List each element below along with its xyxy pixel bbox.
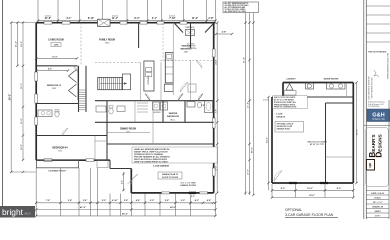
opening dashed line living room (80, 23, 82, 66)
sheet left border line (2, 0, 4, 206)
bay window box with X on top wall (98, 19, 111, 26)
svg-text:21'-8": 21'-8" (215, 59, 217, 64)
garage slab note box (158, 172, 182, 179)
bedroom door swing (62, 128, 68, 136)
svg-text:4'-2": 4'-2" (195, 199, 199, 202)
svg-text:17'-0": 17'-0" (215, 165, 217, 170)
main plan right exterior wall (213, 23, 215, 193)
svg-text:65'-0": 65'-0" (122, 213, 128, 215)
svg-text:THE GETTYSBURG: THE GETTYSBURG (368, 51, 387, 53)
svg-text:bright: bright (2, 207, 24, 217)
garage plan left wall (271, 97, 273, 183)
strong interior wall y122 (95, 121, 214, 123)
master bath vanity (187, 102, 195, 108)
svg-text:HOMES INC: HOMES INC (372, 118, 386, 121)
water heater closet wall (346, 83, 348, 98)
svg-text:LAUNDRY: LAUNDRY (153, 111, 162, 114)
kitchen wall cabinets (165, 53, 173, 83)
svg-text:8'-6": 8'-6" (48, 69, 52, 71)
svg-text:OPENINGS PRIOR TO FRAMING.: OPENINGS PRIOR TO FRAMING. (134, 153, 164, 156)
dining left wall (106, 101, 108, 161)
garage plan laundry top wall (283, 82, 353, 84)
bath vanity counter (38, 110, 52, 117)
svg-text:MASTER: MASTER (169, 112, 178, 115)
door swing at mid wall 2 (178, 94, 183, 101)
breakfast dashed boundary (95, 61, 140, 63)
garage plan door swing (274, 171, 282, 182)
windows on bottom wall (44, 159, 52, 162)
garage plan laundry left wall (282, 83, 284, 98)
svg-text:VERIFY W/ OWNER PRIOR TO START: VERIFY W/ OWNER PRIOR TO START (134, 161, 169, 164)
svg-text:17/19: 17/19 (105, 43, 110, 45)
svg-text:4'-6": 4'-6" (136, 199, 140, 202)
master tub (205, 101, 213, 113)
dryer icon (306, 83, 314, 89)
svg-text:32'-0": 32'-0" (309, 195, 315, 197)
svg-text:2'-8": 2'-8" (222, 32, 227, 34)
door swing at mid wall 1 (145, 94, 150, 101)
garage plan dim chain 2 (272, 197, 353, 199)
garage plan laundry bottom line (272, 96, 353, 98)
small scale figure (374, 70, 379, 77)
svg-text:GARAGE DOORS: GARAGE DOORS (180, 184, 196, 187)
svg-text:14/80: 14/80 (53, 44, 59, 47)
svg-text:3'-1": 3'-1" (66, 17, 71, 20)
svg-text:11'-2": 11'-2" (192, 17, 198, 20)
svg-text:11'-5": 11'-5" (21, 118, 23, 124)
pantry door swing (180, 82, 188, 92)
svg-text:GARAGE PLAN: GARAGE PLAN (277, 128, 291, 131)
garage note text block (132, 147, 218, 163)
storage bay top line (326, 102, 354, 104)
laundry sink triangle (286, 84, 293, 91)
door swing at mid wall 3 (198, 94, 203, 101)
kitchen island (144, 61, 154, 91)
fireplace corner diagonal left (175, 24, 183, 33)
svg-text:5'-0": 5'-0" (181, 200, 185, 202)
svg-text:12/13: 12/13 (126, 132, 131, 134)
closet right wall line (77, 66, 79, 100)
svg-text:AT 16" O.C. TYP.: AT 16" O.C. TYP. (310, 143, 325, 146)
garage door opening 2 (200, 192, 208, 194)
svg-text:4'-4": 4'-4" (207, 199, 211, 202)
svg-text:FAMILY ROOM: FAMILY ROOM (99, 39, 115, 42)
storage bay divider vertical (325, 103, 327, 183)
garage plan note block (273, 96, 308, 109)
stair arrow (100, 83, 127, 85)
svg-text:4'-1": 4'-1" (152, 17, 157, 20)
svg-text:3'-8": 3'-8" (124, 200, 128, 202)
svg-text:5'-8": 5'-8" (165, 200, 169, 202)
svg-text:2-9x5-2: 2-9x5-2 (169, 15, 175, 17)
hall bath fixtures top-mid (96, 106, 106, 112)
svg-text:11/12: 11/12 (58, 151, 62, 153)
svg-text:2-CAR GARAGE: 2-CAR GARAGE (153, 165, 170, 168)
garage small dim (191, 202, 214, 204)
svg-text:11/12: 11/12 (52, 88, 56, 90)
svg-text:COVERED PORCH: COVERED PORCH (48, 171, 66, 173)
mid horizontal interior wall (95, 100, 214, 102)
bath hall wall vertical 2 (184, 101, 186, 123)
svg-text:W.I.C.: W.I.C. (171, 119, 176, 121)
garage plan door marks (289, 182, 297, 184)
pantry door swing upper (196, 60, 202, 68)
bifold closet zigzag doors (69, 70, 77, 83)
svg-text:DINING ROOM: DINING ROOM (120, 129, 136, 131)
svg-text:PRIOR TO CONSTRUCTION: PRIOR TO CONSTRUCTION (274, 107, 297, 109)
garage plan left dim line (268, 97, 270, 190)
garage plan dim chain 1 (272, 189, 353, 191)
hall bath wall vertical (134, 101, 136, 123)
svg-text:13/17: 13/17 (184, 52, 189, 54)
svg-text:3-CAR GARAGE FLOOR PLAN: 3-CAR GARAGE FLOOR PLAN (285, 213, 334, 217)
svg-text:5'-0": 5'-0" (102, 200, 106, 202)
small dim right of plan (216, 33, 232, 35)
svg-text:2-9x5-2: 2-9x5-2 (112, 15, 118, 17)
bearrs ornate seal (367, 160, 375, 171)
svg-text:BEDROOM #4: BEDROOM #4 (52, 147, 68, 150)
dashed vertical kitchen boundary (162, 23, 164, 61)
svg-text:5'-0": 5'-0" (150, 200, 154, 202)
covered porch outline (36, 160, 78, 168)
G&H blue logo box (367, 109, 390, 122)
svg-text:2'-4": 2'-4" (83, 199, 87, 202)
fireplace corner diagonal right (205, 24, 214, 33)
svg-text:717-555-0100: 717-555-0100 (368, 106, 379, 108)
cathedral ceiling dashed line (160, 60, 214, 62)
svg-text:8'-0": 8'-0" (337, 188, 341, 190)
svg-text:GETTYSBURG PA 17325: GETTYSBURG PA 17325 (371, 78, 374, 99)
svg-text:2 OF 7: 2 OF 7 (375, 216, 381, 218)
door swing living wall (73, 66, 78, 73)
garage entry door swing (128, 174, 139, 184)
garage left wall (130, 169, 132, 193)
svg-text:7'-0": 7'-0" (215, 109, 217, 113)
dining bottom wall (107, 131, 150, 133)
svg-text:LIVING ROOM: LIVING ROOM (48, 40, 64, 42)
sitting room wall (190, 23, 192, 48)
interior dim line bedroom2 (36, 57, 77, 59)
svg-text:3-CAR: 3-CAR (276, 113, 283, 116)
main plan bottom wall (left) (36, 159, 110, 161)
hall vertical wall 1 (78, 66, 80, 112)
svg-text:2-9x5-2: 2-9x5-2 (45, 15, 51, 17)
garage plan bottom wall (272, 182, 353, 184)
svg-text:LABEL ALL WINDOWS AND DOORS W/: LABEL ALL WINDOWS AND DOORS W/ (134, 148, 170, 151)
svg-text:66'-0": 66'-0" (8, 94, 11, 101)
svg-text:MANUF. SPECS. VERIFY ALL ROUGH: MANUF. SPECS. VERIFY ALL ROUGH (134, 150, 168, 153)
interior dim line bedroom2 b (36, 70, 68, 72)
hall vertical wall 2 (85, 66, 87, 112)
garage door opening 1 (162, 192, 170, 194)
mud room left wall (152, 101, 154, 144)
svg-text:4'-10": 4'-10" (112, 199, 118, 202)
washer dryer boxes (153, 102, 160, 110)
main plan left exterior wall (35, 23, 37, 161)
svg-text:OPTIONAL LAYOUT: OPTIONAL LAYOUT (277, 122, 295, 125)
bright MLS watermark box (0, 206, 35, 218)
garage top wall (107, 143, 214, 145)
main plan top exterior wall (36, 22, 215, 24)
basement stair hatch (79, 89, 87, 91)
linen closet shelves (137, 102, 148, 104)
fireplace box (186, 30, 195, 36)
right inner dim line (216, 23, 218, 193)
kitchen right wall line (172, 23, 174, 95)
svg-text:2'-8": 2'-8" (201, 105, 205, 107)
svg-text:WWW.BEARRSDESIGNS.COM: WWW.BEARRSDESIGNS.COM (386, 53, 389, 79)
garage plan right wall (352, 83, 354, 184)
windows on right wall (212, 49, 215, 57)
bearrs designs rounded box (366, 128, 389, 187)
svg-text:WATER HEATER: WATER HEATER (324, 78, 339, 81)
svg-text:21'-8": 21'-8" (45, 17, 52, 20)
svg-text:DRAWN: JB: DRAWN: JB (372, 206, 383, 209)
svg-text:9'-0": 9'-0" (191, 196, 195, 198)
bottom extension lines (35, 168, 37, 216)
svg-text:GARAGE: GARAGE (276, 115, 286, 118)
svg-text:41'-0": 41'-0" (80, 206, 86, 209)
svg-text:7'-6": 7'-6" (46, 200, 50, 202)
svg-text:KITCHEN: KITCHEN (148, 75, 150, 84)
svg-text:BEDROOM #2: BEDROOM #2 (47, 85, 62, 87)
svg-text:DATE: 10-4-02: DATE: 10-4-02 (371, 192, 384, 195)
svg-text:BATHROOM: BATHROOM (167, 115, 179, 118)
svg-text:PROVIDE HEADERS AT ALL OPENING: PROVIDE HEADERS AT ALL OPENINGS (134, 155, 170, 158)
optional layout box (275, 122, 304, 133)
front door landing (97, 160, 108, 168)
svg-text:2'-8": 2'-8" (208, 17, 213, 20)
left dimension chain lines (10, 23, 12, 173)
toilet (55, 111, 59, 117)
interior wall x138 upper (138, 23, 140, 48)
line under logo (364, 125, 390, 127)
svg-text:10'-0": 10'-0" (21, 144, 23, 150)
svg-text:21'-8": 21'-8" (244, 57, 246, 63)
garage side dim line (123, 172, 125, 191)
svg-text:24'-0": 24'-0" (266, 137, 269, 143)
garage bottom wall (131, 192, 213, 194)
svg-text:16'-8": 16'-8" (52, 56, 57, 58)
top-right note box (223, 2, 259, 13)
svg-text:8'-0": 8'-0" (281, 188, 285, 190)
svg-text:12'-1": 12'-1" (21, 83, 23, 89)
front wall step (109, 160, 111, 168)
windows on top wall (44, 21, 52, 24)
living/family interior wall (36, 65, 77, 67)
svg-text:14'-2": 14'-2" (20, 41, 23, 47)
kitchen vertical light line (140, 62, 142, 100)
bath hall wall vertical 1 (162, 101, 164, 123)
svg-text:6'-11": 6'-11" (88, 17, 94, 20)
bottom table (388, 100, 390, 219)
garage plan bottom ext lines (271, 184, 273, 198)
svg-text:4'-0": 4'-0" (121, 180, 124, 184)
svg-text:11'-1": 11'-1" (112, 17, 118, 20)
svg-text:1/4" = 1'-0": 1/4" = 1'-0" (373, 201, 383, 204)
linen closet (188, 84, 196, 92)
svg-text:3'-4": 3'-4" (68, 199, 72, 202)
svg-text:21'-4": 21'-4" (15, 41, 18, 47)
top dimension line (38, 20, 216, 22)
svg-text:1234 CHESTNUT RIDGE RD: 1234 CHESTNUT RIDGE RD (368, 76, 371, 100)
master toilet (197, 102, 201, 108)
svg-text:SLOPE TO DOORS: SLOPE TO DOORS (162, 177, 179, 179)
svg-text:GARAGE SLAB TO: GARAGE SLAB TO (162, 173, 179, 176)
svg-text:SHEET: SHEET (374, 211, 381, 213)
bottom dim chain 2 (36, 209, 215, 211)
title block left double border (363, 0, 365, 219)
svg-text:OPTIONAL: OPTIONAL (285, 208, 302, 212)
bottom dim chain 3 overall (36, 215, 215, 217)
pantry divider wall (190, 60, 192, 101)
svg-text:8'-4": 8'-4" (134, 17, 139, 20)
garage plan right dim line (356, 83, 358, 184)
title block revision rows (366, 5, 390, 7)
svg-text:7'-10": 7'-10" (169, 17, 176, 20)
bottom dim chain 1 (36, 202, 215, 204)
windows on left wall (35, 72, 38, 81)
staircase (98, 77, 123, 89)
kitchen left wall line (160, 62, 162, 100)
water heater icons (327, 83, 346, 89)
svg-text:SCALE: SCALE (374, 197, 381, 200)
top dimension extension lines (37, 0, 39, 22)
right dimension chain lines (245, 13, 247, 196)
bedroom4 top wall (36, 135, 107, 137)
svg-text:SEE DETAIL: SEE DETAIL (187, 47, 197, 50)
svg-text:24'-0": 24'-0" (170, 206, 176, 209)
bath top wall (36, 103, 78, 105)
bedroom4 closet wall (94, 136, 96, 161)
svg-text:17'-0": 17'-0" (248, 169, 250, 175)
svg-text:SEE PLAN FOR ALL WINDOW SIZES: SEE PLAN FOR ALL WINDOW SIZES (134, 158, 168, 161)
svg-text:66'-0": 66'-0" (252, 147, 254, 153)
svg-text:SHOWN W/ 2-CAR: SHOWN W/ 2-CAR (277, 125, 293, 128)
svg-text:26'-0": 26'-0" (356, 129, 358, 135)
storage bay mid line (326, 156, 354, 158)
svg-text:LAUNDRY: LAUNDRY (286, 78, 296, 81)
svg-text:17'-4": 17'-4" (247, 102, 250, 108)
garage door dark jamb (189, 192, 196, 194)
svg-text:MLS: MLS (25, 212, 31, 216)
svg-text:§: § (369, 163, 372, 169)
svg-text:16'-0": 16'-0" (307, 188, 313, 190)
